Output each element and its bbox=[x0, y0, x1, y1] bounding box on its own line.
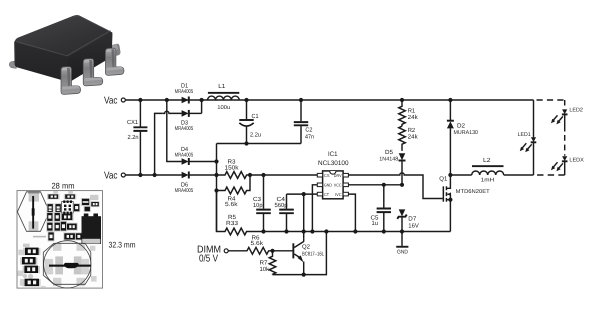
junction rail / C5 bottom bbox=[382, 229, 386, 233]
node DIMM terminal bbox=[224, 249, 228, 253]
svg-text:1mH: 1mH bbox=[481, 178, 495, 184]
wire negative-node row (C1/C2 bottoms) bbox=[217, 143, 302, 145]
wire LEDX cathode to corner bbox=[564, 162, 566, 176]
PCB board outline bbox=[17, 191, 103, 289]
MOSFET Q1 MTD6N20ET bbox=[439, 175, 490, 232]
diode D6 MRA4005 bbox=[175, 172, 217, 195]
pin CS box bbox=[317, 173, 322, 177]
junction bottom rail / CX1 bbox=[138, 173, 142, 177]
svg-text:Vac: Vac bbox=[104, 96, 118, 107]
pin GND box bbox=[317, 183, 322, 187]
svg-text:5.6k: 5.6k bbox=[225, 201, 239, 208]
svg-text:L2: L2 bbox=[483, 157, 491, 164]
IC package 3D photo (SOT-23-6 / TSOP-6) bbox=[9, 15, 124, 94]
wire CT row (C4 to CT pin) bbox=[287, 193, 318, 195]
IC U1 IC1 NCL30100 bbox=[317, 151, 349, 199]
wire D3 cathode up to node A bbox=[201, 100, 203, 113]
junction CS row / C3 top bbox=[261, 173, 265, 177]
LED LEDX bbox=[551, 156, 584, 171]
svg-text:32.3 mm: 32.3 mm bbox=[109, 241, 136, 250]
PCB small SMD parts top cluster bbox=[46, 191, 99, 241]
left column SMD resistors (black body, white windows, gray pads) bbox=[20, 244, 40, 287]
junction R6 / R7 / base bbox=[270, 249, 274, 253]
svg-text:IC1: IC1 bbox=[328, 151, 338, 158]
svg-text:Vac: Vac bbox=[104, 171, 118, 182]
junction top rail / CX1 bbox=[138, 98, 142, 102]
svg-text:2.2n: 2.2n bbox=[128, 134, 139, 141]
svg-text:28 mm: 28 mm bbox=[52, 182, 75, 191]
svg-text:VCC: VCC bbox=[334, 183, 342, 188]
wire CT-to-Q2-collector vertical bbox=[303, 194, 305, 239]
resistor R7 10k bbox=[260, 251, 276, 275]
wire LED2 cathode segment bbox=[564, 115, 566, 132]
svg-text:C2: C2 bbox=[305, 127, 313, 134]
junction top rail / D4 branch bbox=[165, 98, 169, 102]
junction drain row / D2 anode bbox=[448, 173, 452, 177]
svg-text:R7: R7 bbox=[260, 259, 269, 266]
svg-text:16V: 16V bbox=[408, 222, 419, 229]
wire bottom Vac rail to D6 bbox=[125, 174, 181, 176]
junction negative vertical / R4 row bbox=[214, 188, 218, 192]
junction VCC row / C5 bbox=[382, 183, 386, 187]
LED1 emission arrows bbox=[527, 144, 532, 150]
pin CT box bbox=[317, 192, 322, 196]
svg-text:C1: C1 bbox=[252, 113, 260, 120]
svg-text:Q2: Q2 bbox=[302, 243, 311, 250]
svg-text:LED1: LED1 bbox=[518, 132, 531, 138]
svg-text:CS: CS bbox=[324, 173, 330, 178]
junction rail / IVC bbox=[353, 229, 357, 233]
junction rail / CT vertical bbox=[302, 229, 306, 233]
svg-text:2.2u: 2.2u bbox=[250, 132, 261, 139]
svg-text:LED2: LED2 bbox=[569, 108, 583, 114]
zener diode D7 16V bbox=[397, 209, 419, 246]
svg-text:0/5 V: 0/5 V bbox=[199, 254, 218, 265]
junction R3/R4 right ends bbox=[248, 173, 252, 177]
package body top face bbox=[15, 15, 111, 56]
front gull-wing lead 1 bbox=[61, 67, 81, 95]
svg-text:D5: D5 bbox=[385, 149, 394, 156]
left side lead bbox=[9, 61, 16, 68]
package body right face bbox=[68, 32, 113, 82]
LED LED1 bbox=[518, 132, 537, 152]
capacitor C1 2.2u (polarized) bbox=[239, 100, 261, 144]
resistor R1 24k bbox=[399, 100, 419, 126]
junction CT row / Q2 collector branch bbox=[302, 192, 306, 196]
svg-text:CX1: CX1 bbox=[127, 119, 139, 126]
junction negative vertical / D6-CS row bbox=[214, 173, 218, 177]
wire DRV pin to Q1 gate with hop over VCC column bbox=[348, 173, 442, 199]
svg-text:MRA4005: MRA4005 bbox=[175, 89, 194, 95]
resistor R3 150k bbox=[217, 159, 318, 179]
svg-text:C3: C3 bbox=[253, 196, 262, 203]
svg-text:GND: GND bbox=[397, 250, 408, 256]
big black capacitor on PCB bbox=[84, 214, 89, 217]
diode D1 MRA4005 bbox=[175, 83, 194, 104]
junction negative vertical / D4 row bbox=[214, 159, 218, 163]
wire LED1 branch bottom row bbox=[504, 174, 534, 176]
package body silhouette bbox=[14, 15, 112, 82]
junction rail / D7-GND column bbox=[400, 229, 404, 233]
svg-text:MURA130: MURA130 bbox=[454, 130, 479, 136]
svg-text:DRV: DRV bbox=[334, 173, 342, 178]
junction top rail / R1 bbox=[400, 98, 404, 102]
svg-text:1N4148: 1N4148 bbox=[379, 157, 398, 163]
svg-text:5.6k: 5.6k bbox=[251, 240, 265, 247]
junction top rail / D2 bbox=[448, 98, 452, 102]
wire dashed bottom extension bbox=[536, 174, 565, 176]
PCB silk text bbox=[33, 236, 46, 238]
svg-text:150k: 150k bbox=[225, 164, 240, 171]
junction emitter / R7 bottom row bbox=[302, 273, 306, 277]
svg-text:BC817–16L: BC817–16L bbox=[302, 252, 324, 258]
resistor R5 R33 (current sense) bbox=[217, 191, 451, 235]
back lead upper-right bbox=[104, 44, 121, 57]
capacitor CX1 bbox=[127, 100, 147, 175]
svg-text:CT: CT bbox=[324, 192, 329, 197]
capacitor C3 10p bbox=[253, 175, 271, 232]
junction rail / emitter return bbox=[324, 229, 328, 233]
svg-text:24k: 24k bbox=[408, 133, 419, 140]
svg-text:IVC: IVC bbox=[335, 192, 342, 197]
svg-text:R33: R33 bbox=[226, 220, 239, 227]
capacitor C2 47n bbox=[294, 100, 314, 144]
wire LED1 branch vertical bbox=[533, 100, 535, 175]
junction C1 bottom bbox=[244, 141, 248, 145]
wire dashed right string top bbox=[564, 100, 566, 109]
svg-text:D2: D2 bbox=[457, 122, 466, 129]
PCB layout photo with dimensions bbox=[17, 182, 136, 289]
diode D2 MURA130 (freewheeling) bbox=[447, 100, 478, 175]
svg-text:L1: L1 bbox=[218, 83, 226, 90]
pin IVC box bbox=[343, 192, 348, 196]
svg-text:MRA4005: MRA4005 bbox=[175, 188, 194, 194]
svg-text:1u: 1u bbox=[372, 220, 379, 227]
LEDX emission arrows bbox=[558, 163, 563, 169]
LED2 emission arrows bbox=[558, 116, 563, 122]
svg-text:100u: 100u bbox=[217, 105, 230, 111]
svg-text:MTD6N20ET: MTD6N20ET bbox=[456, 189, 491, 195]
wire drain row bbox=[450, 174, 471, 176]
diode D4 MRA4005 bbox=[175, 146, 217, 165]
svg-text:C4: C4 bbox=[277, 196, 286, 203]
svg-text:47n: 47n bbox=[305, 134, 314, 141]
wire D3 row with crossover hop over D4 branch bbox=[163, 111, 182, 113]
front gull-wing lead 3 bbox=[105, 48, 124, 75]
svg-text:D7: D7 bbox=[408, 215, 417, 222]
transistor Q2 BC817-16L bbox=[273, 239, 325, 275]
svg-text:10p: 10p bbox=[253, 202, 263, 209]
junction bottom rail / D3 branch bbox=[153, 173, 157, 177]
svg-text:560p: 560p bbox=[275, 202, 289, 209]
wire D3 anode branch (bottom Vac up to D3 row) bbox=[155, 113, 163, 175]
ground symbol bbox=[396, 246, 408, 256]
wire VCC row bbox=[348, 184, 402, 186]
svg-text:Q1: Q1 bbox=[439, 175, 448, 182]
junction rail / GND pin bbox=[310, 229, 314, 233]
capacitor C4 560p bbox=[275, 194, 294, 231]
svg-text:MRA4005: MRA4005 bbox=[175, 153, 194, 159]
svg-text:MRA4005: MRA4005 bbox=[175, 126, 194, 132]
wire emitter return row bbox=[273, 232, 327, 275]
resistor R4 5.6k (parallel with R3) bbox=[217, 175, 251, 208]
diode D3 MRA4005 bbox=[175, 110, 202, 132]
svg-text:R2: R2 bbox=[408, 127, 416, 134]
pin DRV box bbox=[343, 173, 348, 177]
small IC footprint on PCB bbox=[62, 202, 73, 214]
svg-text:NCL30100: NCL30100 bbox=[318, 160, 349, 167]
resistor R6 5.6k bbox=[228, 234, 272, 254]
wire GND pin to rail bbox=[312, 185, 317, 232]
body edge highlights bbox=[17, 31, 111, 56]
junction rail / C4 bottom bbox=[284, 229, 288, 233]
PCB inductor L1 hexagon outline bbox=[29, 191, 39, 201]
wire IVC pin to rail bbox=[348, 194, 355, 231]
svg-text:R1: R1 bbox=[408, 108, 416, 115]
inductor L2 1mH bbox=[472, 157, 504, 183]
junction rail / C3 bottom bbox=[261, 229, 265, 233]
svg-text:10k: 10k bbox=[260, 266, 270, 273]
junction node A (D1/D3 cathodes, L1 input) bbox=[200, 98, 204, 102]
LED LED2 bbox=[551, 108, 583, 125]
junction top rail / C1 bbox=[244, 98, 248, 102]
PCB inductor L2 octagon and toroid outline (bottom) bbox=[18, 244, 97, 288]
svg-text:24k: 24k bbox=[408, 114, 419, 121]
wire negative-node vertical bbox=[216, 144, 218, 232]
svg-text:LEDX: LEDX bbox=[569, 158, 584, 164]
resistor R2 24k bbox=[399, 126, 419, 151]
svg-text:GND: GND bbox=[324, 183, 332, 188]
diode D5 1N4148 bbox=[379, 149, 405, 185]
wire top rail bbox=[125, 99, 533, 101]
wire D4 anode branch (top rail down to D4 row) bbox=[167, 100, 182, 162]
junction VCC row / D5-D7 column bbox=[400, 183, 404, 187]
inductor L1 100u bbox=[208, 83, 240, 111]
front gull-wing lead 2 bbox=[83, 59, 103, 86]
pin VCC box bbox=[343, 183, 348, 187]
wire dashed mid segment bbox=[564, 135, 566, 156]
capacitor C5 1u bbox=[371, 185, 392, 232]
wire dashed top extension bbox=[537, 99, 565, 101]
junction top rail / C2 bbox=[299, 98, 303, 102]
